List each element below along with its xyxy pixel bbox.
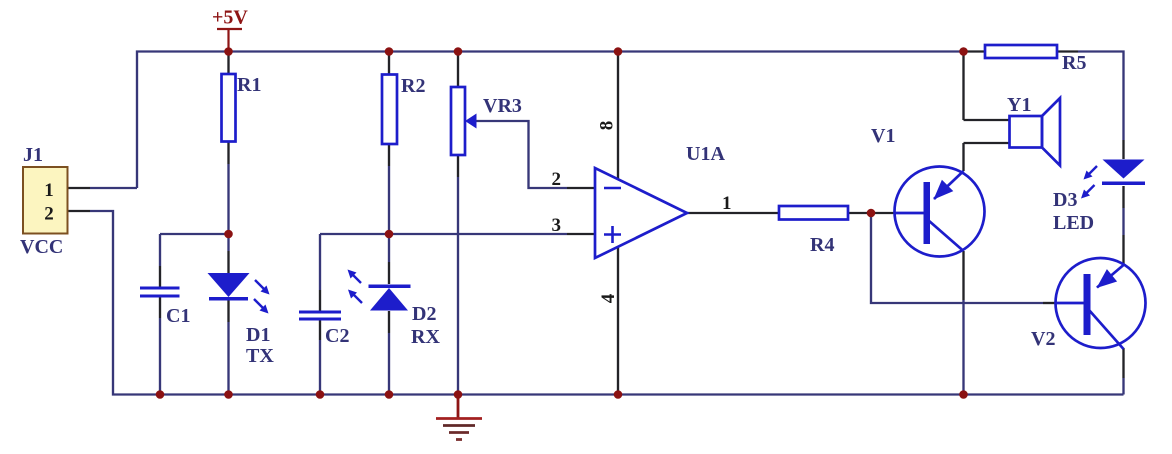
svg-text:1: 1	[44, 180, 54, 201]
svg-text:2: 2	[552, 169, 562, 190]
svg-text:3: 3	[552, 215, 562, 236]
svg-text:4: 4	[598, 293, 619, 303]
svg-text:D2: D2	[412, 303, 436, 325]
svg-text:C2: C2	[325, 325, 349, 347]
svg-text:R5: R5	[1062, 52, 1086, 74]
svg-text:R1: R1	[237, 74, 261, 96]
svg-text:TX: TX	[246, 345, 274, 367]
svg-text:R4: R4	[810, 234, 834, 256]
svg-text:J1: J1	[23, 144, 43, 166]
svg-text:LED: LED	[1053, 212, 1094, 234]
svg-text:VCC: VCC	[20, 236, 63, 258]
svg-text:D3: D3	[1053, 189, 1077, 211]
svg-text:C1: C1	[166, 305, 190, 327]
svg-text:8: 8	[597, 121, 618, 131]
svg-text:Y1: Y1	[1007, 94, 1031, 116]
svg-text:D1: D1	[246, 324, 270, 346]
svg-text:1: 1	[722, 193, 732, 214]
svg-text:V1: V1	[871, 125, 895, 147]
svg-text:R2: R2	[401, 75, 425, 97]
svg-text:2: 2	[44, 204, 54, 225]
svg-text:VR3: VR3	[483, 95, 522, 117]
svg-text:RX: RX	[411, 326, 440, 348]
svg-text:V2: V2	[1031, 328, 1055, 350]
svg-text:U1A: U1A	[686, 143, 725, 165]
svg-text:+5V: +5V	[212, 7, 248, 29]
